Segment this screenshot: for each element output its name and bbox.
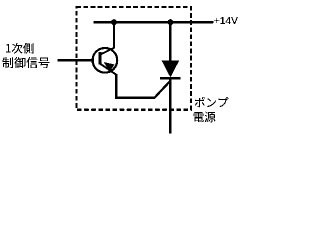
wire: emitter down, across, up to thyristor gate — [116, 74, 170, 98]
transistor Q1 (PNP) — [93, 48, 118, 75]
label: ポンプ (line 1 of output label) — [195, 97, 229, 107]
wire: base input from control signal — [58, 59, 95, 61]
svg-text:+14V: +14V — [214, 16, 238, 27]
Q1 base bar — [99, 52, 102, 64]
label: 制御信号 (line 2 of input label) — [2, 57, 49, 68]
thyristor D1 (SCR) — [160, 22, 180, 133]
wire: D1 cathode out to pump supply — [169, 78, 171, 133]
D1 cathode bar — [160, 77, 180, 80]
Q1 body circle — [93, 48, 118, 73]
wire: Q1 collector to rail — [113, 22, 115, 48]
D1 anode triangle — [162, 60, 180, 77]
wire: +14V supply rail — [94, 21, 214, 23]
label: 1次側 (line 1 of input label) — [6, 43, 34, 54]
Q1 emitter lead — [101, 64, 117, 75]
Q1 collector lead — [101, 48, 115, 55]
junction: collector tap on +14V rail — [111, 19, 117, 25]
junction: thyristor anode tap on +14V rail — [168, 19, 174, 25]
Q1 emitter arrow (PNP, pointing into base) — [104, 62, 115, 71]
dashed enclosure box (unit boundary) — [77, 7, 192, 110]
D1 anode wire — [169, 22, 171, 62]
label: 電源 (line 2 of output label) — [194, 112, 216, 122]
